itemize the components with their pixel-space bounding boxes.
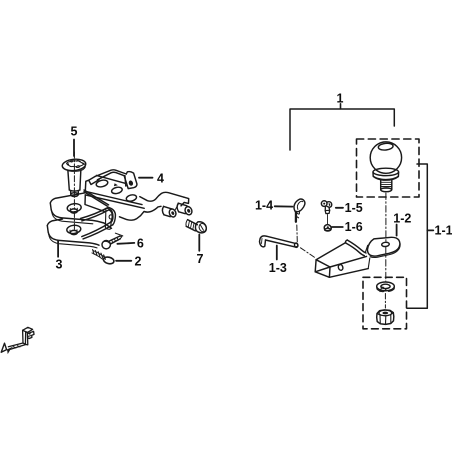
leader line for 1-5 [336,207,343,209]
line 1-5 to 1-6 [327,215,329,225]
leader line for 7 [198,235,200,251]
weld wedge [114,183,118,186]
bracket strap 4 (part 4) [89,170,137,189]
svg-text:2: 2 [135,254,142,268]
right face / arm transition [140,192,184,201]
svg-text:1-6: 1-6 [345,220,363,234]
ear [124,172,137,189]
leader line for 2 [116,260,131,262]
neck band (descending) [345,240,347,243]
centerline pin to tube [301,248,315,257]
top-back edge [316,243,346,260]
top face holes [96,179,109,188]
top-front edge [330,256,367,267]
clip 1-4 [294,199,305,222]
post top face [23,327,33,332]
label 6 [137,237,144,251]
label 1-4 [255,198,273,212]
counterbore hole [67,203,82,213]
label 1-2 [393,212,411,226]
plate 3 bottom layer [47,219,99,248]
fold line [365,245,367,252]
label 1-1 [435,223,452,237]
base lines [8,343,25,349]
label 4 [157,171,164,185]
centerline ball to plate [385,193,387,241]
drawbar tube [315,237,400,277]
leader line for 3 [57,241,59,257]
label 1-6 [345,220,363,234]
front direction icon [1,327,34,354]
head outer rim [62,158,87,172]
svg-text:5: 5 [71,125,78,139]
label 3 [56,258,63,272]
hitch ball B1-2 [370,142,401,192]
svg-text:1-5: 1-5 [345,201,363,215]
svg-text:7: 7 [197,252,204,266]
back edge [85,180,88,191]
torx recess detail [67,161,84,167]
leader line for 5 [73,140,75,157]
bottom dashed box [363,277,407,329]
centerline clip to pin [296,225,299,243]
bail right vertex arc [108,207,115,225]
label 7 [197,252,204,266]
tip bottom [71,193,79,197]
left front face [85,195,105,212]
top dashed box [357,139,420,197]
centerline plate to washer box [385,247,387,281]
pin P5 (part 5) [62,158,87,196]
post front face [25,332,27,345]
boss cylinder rear [164,206,172,216]
front fold edge [96,175,124,183]
hook D-piece [105,208,113,229]
arrow [1,343,6,352]
platform [367,237,399,256]
leader line for 1-6 [332,226,343,228]
leader line for 1-3 [276,246,278,260]
leader line for 1-4 [275,205,293,207]
top edges (bent bar) [95,170,126,177]
label 1 [337,92,344,106]
thickness [52,212,93,224]
bracket for 1-1 [407,164,427,308]
bottom edge [329,269,368,278]
hex nut N [377,310,394,325]
svg-text:6: 6 [137,237,144,251]
centerline washer to nut [384,294,386,309]
part 7 bolt [186,220,207,233]
right end stub [368,258,370,269]
label tick 1-1 [427,229,433,231]
front face [315,260,330,278]
boss cylinder front [178,203,187,214]
bottom right corner [120,216,141,220]
diagonal band from housing to hook [84,190,109,205]
bail upper arm [81,207,109,218]
side hole [338,264,344,271]
plate 3 top layer [50,193,111,229]
flange [373,168,399,175]
bail end to screw 6 [115,233,123,236]
part 2 R-clip [92,250,115,265]
arm bottom edge [141,206,162,215]
svg-text:3: 3 [56,258,63,272]
ear hole [128,180,134,186]
part 6 small screw [102,236,122,249]
step to tip [69,190,80,191]
svg-text:4: 4 [157,171,164,185]
platform hole [382,242,390,247]
ridge lines [85,191,142,204]
leader line for 6 [117,242,134,245]
platform thickness [370,243,400,257]
bail lower arm [83,225,113,239]
label 1-5 [345,201,363,215]
leader line for 1-2 [396,225,398,236]
arm right end notch [181,197,189,206]
svg-text:1-2: 1-2 [393,212,411,226]
svg-text:1-1: 1-1 [435,223,452,237]
label 1 tick [340,104,342,109]
flag tab [28,331,34,338]
bolt 1-5 [321,201,331,214]
threaded shank [381,180,392,189]
leader line for 4 [139,177,153,179]
pin 1-3 [260,236,299,248]
label 1-3 [269,261,287,275]
bracket for 1 [290,109,394,150]
label 5 [71,125,78,139]
lock washer W [377,282,395,292]
counterbore hole [66,225,81,235]
housing main body [81,179,194,239]
thickness [49,234,97,248]
nut 1-6 [324,225,331,231]
post left face [23,330,26,344]
body cylinder [68,171,69,190]
svg-text:1-4: 1-4 [255,198,273,212]
svg-text:1-3: 1-3 [269,261,287,275]
left end [89,177,99,185]
pin P5 centerline [73,152,75,231]
label 2 [135,254,142,268]
